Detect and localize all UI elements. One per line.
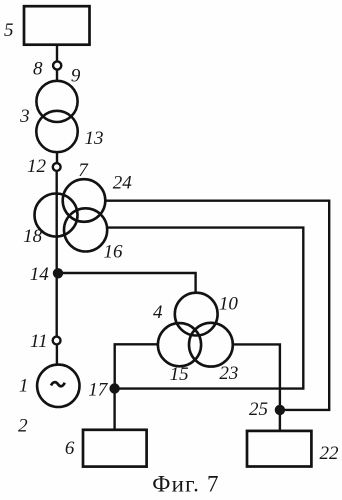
svg-text:5: 5 — [4, 20, 14, 41]
switch contact 11 — [53, 337, 61, 345]
svg-text:13: 13 — [85, 128, 104, 149]
generator sine symbol — [51, 382, 65, 386]
svg-text:22: 22 — [320, 443, 340, 464]
transformer 23 winding — [189, 323, 233, 367]
block 5 — [24, 6, 90, 45]
switch contact 12 — [53, 163, 61, 171]
svg-text:9: 9 — [71, 66, 81, 87]
main bus wire 12 to 11 — [56, 171, 58, 337]
svg-text:14: 14 — [30, 264, 50, 285]
svg-text:6: 6 — [65, 438, 75, 459]
wire switch to transformer 3 — [56, 70, 58, 82]
transformer 7 winding — [63, 179, 106, 222]
wire winding 15 to node 17 — [115, 344, 158, 388]
svg-text:16: 16 — [104, 241, 124, 262]
svg-text:8: 8 — [33, 58, 43, 79]
node 14 — [53, 268, 63, 278]
svg-text:18: 18 — [23, 226, 43, 247]
node 17 — [109, 383, 119, 393]
svg-text:15: 15 — [170, 364, 189, 385]
svg-text:17: 17 — [88, 379, 109, 400]
wire winding 7 to node 25 — [105, 201, 329, 410]
transformer 3 winding — [36, 81, 77, 122]
svg-text:12: 12 — [27, 156, 47, 177]
svg-text:23: 23 — [219, 363, 238, 384]
block 6 — [83, 430, 147, 467]
svg-text:1: 1 — [19, 376, 29, 397]
generator 1 — [37, 365, 79, 407]
block 22 — [247, 431, 311, 467]
svg-text:2: 2 — [18, 415, 28, 436]
svg-text:Фиг. 7: Фиг. 7 — [152, 472, 220, 497]
wire 5 to switch 8 — [56, 45, 58, 62]
svg-text:25: 25 — [249, 399, 268, 420]
transformer 18 winding — [35, 194, 78, 237]
wire transformer 13 to switch 12 — [56, 152, 58, 163]
wire node 14 to transformer 10 — [58, 273, 196, 293]
transformer 16 winding — [64, 208, 107, 251]
svg-text:3: 3 — [19, 106, 30, 127]
svg-text:11: 11 — [30, 331, 48, 352]
wire winding 23 to node 25 to block 22 — [233, 344, 280, 431]
svg-text:4: 4 — [153, 302, 163, 323]
wire node 17 to block 6 — [113, 389, 115, 430]
wire winding 16 to node 17 — [107, 228, 303, 389]
svg-text:7: 7 — [78, 160, 89, 181]
transformer 15 winding — [158, 323, 201, 366]
svg-text:10: 10 — [219, 294, 239, 315]
node 25 — [275, 405, 285, 415]
wire switch 11 to generator 1 — [56, 344, 58, 364]
transformer 10 winding — [175, 293, 218, 336]
transformer 13 winding — [36, 111, 77, 152]
svg-text:24: 24 — [113, 172, 133, 193]
switch contact 8/9 — [53, 61, 61, 69]
